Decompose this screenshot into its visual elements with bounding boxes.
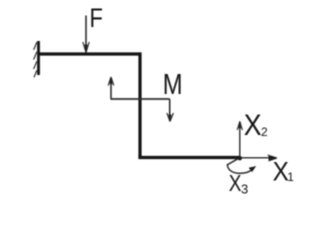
beam vertical member [138, 52, 141, 157]
wall hatch 4 [34, 70, 37, 77]
fixed support wall [37, 41, 40, 75]
svg-text:3: 3 [241, 182, 248, 197]
junction dot at axes origin [238, 156, 242, 160]
axis X3 arrowhead [249, 166, 257, 172]
moment down arrow shaft [169, 99, 171, 119]
wall hatch 3 [34, 61, 37, 69]
moment up arrow shaft [110, 79, 112, 99]
axis X1 shaft [240, 157, 270, 159]
moment down arrowhead [167, 113, 174, 122]
axis X3 curved arrow [227, 158, 253, 173]
svg-text:2: 2 [261, 125, 268, 139]
svg-text:X: X [229, 170, 242, 196]
svg-text:X: X [244, 108, 262, 142]
wall hatch 2 [34, 52, 37, 60]
axis X1 arrowhead [268, 155, 278, 161]
svg-text:1: 1 [287, 170, 294, 184]
axis X2 arrowhead [237, 121, 242, 130]
axis X2 shaft [239, 129, 241, 158]
force F arrowhead [83, 42, 89, 53]
beam bottom horizontal member [138, 156, 240, 159]
moment up arrowhead [108, 77, 114, 86]
wall hatch 1 [34, 42, 37, 50]
svg-text:M: M [163, 68, 183, 101]
svg-text:F: F [90, 4, 103, 34]
moment couple horizontal bar [111, 98, 170, 100]
force F arrow shaft [85, 16, 87, 51]
beam top horizontal member [39, 52, 141, 55]
